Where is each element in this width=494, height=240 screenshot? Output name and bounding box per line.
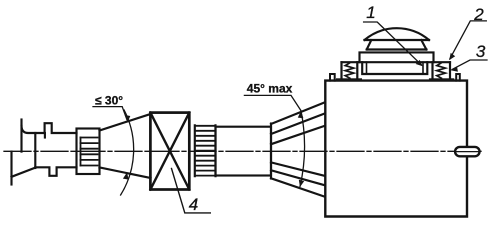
svg-text:4: 4	[189, 195, 198, 214]
svg-text:45° max: 45° max	[247, 81, 293, 95]
svg-text:3: 3	[476, 42, 486, 61]
svg-text:≤ 30°: ≤ 30°	[95, 93, 123, 107]
svg-text:1: 1	[366, 3, 375, 22]
